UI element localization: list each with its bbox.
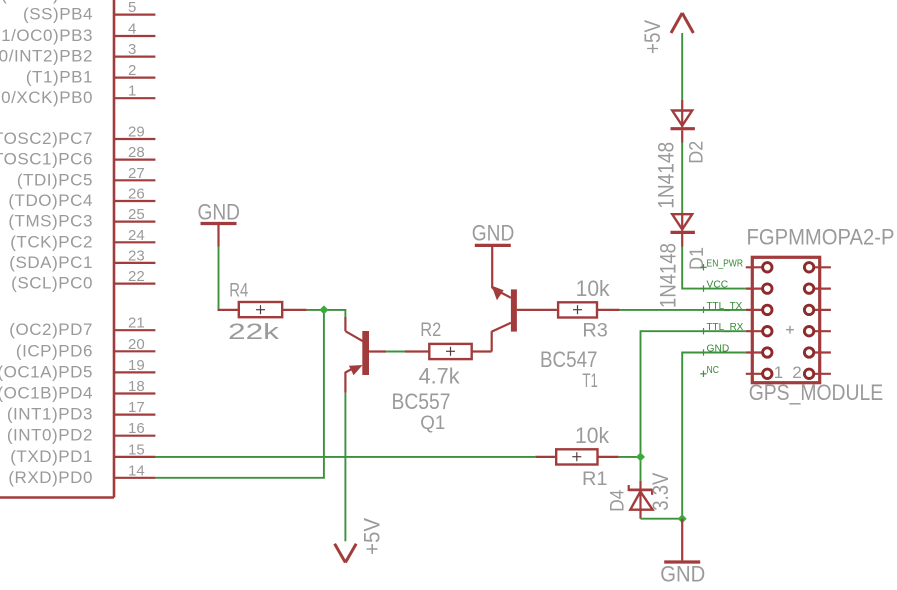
svg-text:17: 17: [128, 399, 145, 416]
pin 29 (TOSC2)PC7: [0, 124, 155, 149]
GPS pin EN_PWR (left pad row 1): [700, 258, 772, 272]
IC U1 body (ATmega microcontroller, partially off-canvas): [0, 0, 114, 498]
svg-text:T1: T1: [582, 371, 598, 392]
pin 1 (T0/XCK)PB0: [0, 83, 155, 108]
svg-text:GND: GND: [472, 220, 515, 245]
svg-text:BC557: BC557: [392, 389, 451, 414]
wire R4 to junction: [307, 309, 324, 311]
svg-text:25: 25: [128, 206, 145, 223]
svg-text:D2: D2: [687, 141, 708, 164]
svg-text:10k: 10k: [576, 276, 611, 301]
wire R3 to GPS TTL_TX: [620, 309, 746, 311]
svg-text:GND: GND: [707, 344, 730, 355]
svg-text:+5V: +5V: [360, 518, 385, 555]
svg-text:(TOSC2)PC7: (TOSC2)PC7: [0, 129, 93, 148]
junction node (R1 / D4 / TTL_RX): [636, 452, 645, 461]
transistor Q1 BC557 (PNP): [345, 317, 450, 434]
GPS pin TTL_RX (left pad row 4): [700, 322, 772, 336]
svg-text:15: 15: [128, 441, 145, 458]
pin 21 (OC2)PD7: [9, 315, 155, 340]
svg-text:(TMS)PC3: (TMS)PC3: [8, 212, 93, 231]
GPS pin GND (left pad row 5): [700, 344, 772, 358]
pin 22 (SCL)PC0: [11, 268, 155, 293]
svg-text:R1: R1: [582, 469, 608, 490]
diode D2 1N4148: [653, 100, 707, 209]
pin 3 (AIN0/INT2)PB2: [0, 41, 155, 66]
svg-text:14: 14: [128, 462, 145, 479]
svg-text:19: 19: [128, 357, 145, 374]
resistor R2 4.7k: [405, 320, 492, 389]
svg-text:(T0/XCK)PB0: (T0/XCK)PB0: [0, 88, 93, 107]
wire D1 to GPS VCC: [682, 247, 746, 289]
svg-text:1N4148: 1N4148: [653, 142, 678, 209]
pin 20 (ICP)PD6: [16, 336, 156, 361]
svg-text:22: 22: [128, 268, 145, 285]
GPS right pad row 2: [804, 284, 831, 293]
pin 14 (RXD)PD0: [8, 462, 155, 487]
wire D2 to D1: [681, 143, 683, 213]
wire junction down to RXD (pin 14): [155, 310, 324, 478]
svg-text:(RXD)PD0: (RXD)PD0: [8, 468, 93, 487]
svg-text:22k: 22k: [228, 319, 280, 344]
svg-text:28: 28: [128, 144, 145, 161]
svg-text:(INT0)PD2: (INT0)PD2: [7, 426, 93, 445]
svg-text:29: 29: [128, 124, 145, 141]
junction node (R4 / Q1 / PD0): [319, 305, 328, 314]
svg-text:(SDA)PC1: (SDA)PC1: [9, 253, 93, 272]
svg-text:3.3V: 3.3V: [648, 472, 673, 510]
pin 19 (OC1A)PD5: [0, 357, 155, 382]
svg-text:27: 27: [128, 165, 145, 182]
GPS right pad row 6: [804, 369, 831, 378]
svg-text:D4: D4: [607, 489, 628, 511]
ground GND (near T1): [472, 220, 515, 245]
wire GND to R4 (vertical): [218, 247, 220, 311]
svg-text:(TCK)PC2: (TCK)PC2: [10, 232, 93, 251]
GPS right pad row 4: [804, 327, 831, 336]
svg-text:(TXD)PD1: (TXD)PD1: [10, 447, 93, 466]
svg-text:TTL_TX: TTL_TX: [707, 301, 743, 312]
svg-text:26: 26: [128, 186, 145, 203]
transistor T1 BC547 (NPN): [492, 247, 598, 392]
svg-text:NC: NC: [707, 365, 720, 376]
svg-text:(SCL)PC0: (SCL)PC0: [11, 274, 93, 293]
GPS right pad row 1: [804, 263, 831, 272]
svg-text:(MISO)PB5: (MISO)PB5: [1, 0, 93, 4]
svg-text:1: 1: [128, 83, 136, 100]
+5V supply symbol (top): [640, 13, 694, 54]
resistor R4 22k: [218, 280, 307, 343]
svg-text:3: 3: [128, 41, 136, 58]
svg-text:FGPMMOPA2-P: FGPMMOPA2-P: [747, 224, 895, 249]
wire Q1 base to R2: [386, 351, 405, 353]
GPS pin NC (left pad row 6): [700, 365, 772, 379]
svg-text:(TDI)PC5: (TDI)PC5: [17, 170, 93, 189]
diode D1 1N4148: [656, 213, 708, 308]
pin 16 (INT0)PD2: [7, 420, 156, 445]
svg-text:24: 24: [128, 227, 145, 244]
wire D4 to GND junction: [641, 518, 683, 520]
svg-text:16: 16: [128, 420, 145, 437]
svg-text:(OC2)PD7: (OC2)PD7: [9, 320, 93, 339]
+5V supply symbol (bottom): [335, 518, 385, 563]
svg-text:(T1)PB1: (T1)PB1: [26, 68, 93, 87]
svg-text:TTL_RX: TTL_RX: [707, 322, 744, 333]
svg-text:(OC1A)PD5: (OC1A)PD5: [0, 362, 93, 381]
pin 5 (SS)PB4: [23, 0, 155, 24]
junction node (D4 / GPS GND / GND): [678, 514, 687, 523]
svg-text:(AIN1/OC0)PB3: (AIN1/OC0)PB3: [0, 26, 93, 45]
pin 23 (SDA)PC1: [9, 247, 155, 272]
svg-text:R4: R4: [229, 280, 248, 301]
pin 15 (TXD)PD1: [10, 441, 155, 466]
wire junction up to GPS TTL_RX: [641, 331, 746, 457]
pin 2 (T1)PB1: [26, 62, 156, 87]
pin 28 (TOSC1)PC6: [0, 144, 155, 169]
pin 18 (OC1B)PD4: [0, 378, 155, 403]
svg-text:5: 5: [128, 0, 136, 16]
pin 25 (TMS)PC3: [8, 206, 155, 231]
resistor R3 10k: [558, 276, 620, 342]
ground GND (bottom): [660, 519, 705, 587]
GPS pin TTL_TX (left pad row 3): [700, 301, 772, 315]
svg-text:(AIN0/INT2)PB2: (AIN0/INT2)PB2: [0, 47, 93, 66]
svg-text:1N4148: 1N4148: [656, 243, 681, 308]
pin 17 (INT1)PD3: [7, 399, 156, 424]
svg-text:BC547: BC547: [540, 347, 598, 372]
svg-text:(INT1)PD3: (INT1)PD3: [7, 405, 93, 424]
svg-text:GND: GND: [660, 561, 705, 586]
svg-text:10k: 10k: [575, 423, 610, 448]
pin 26 (TDO)PC4: [8, 186, 155, 211]
svg-text:EN_PWR: EN_PWR: [707, 258, 744, 269]
svg-text:21: 21: [128, 315, 145, 332]
GPS pin VCC (left pad row 2): [700, 280, 772, 294]
wire junction to Q1 collector corner: [324, 310, 346, 318]
zener diode D4 3.3V: [607, 472, 673, 518]
wire R1 to junction: [619, 456, 641, 458]
wire GPS GND down to junction: [682, 353, 746, 519]
pin 4 (AIN1/OC0)PB3: [0, 21, 155, 46]
svg-text:(SS)PB4: (SS)PB4: [23, 5, 93, 24]
svg-text:4: 4: [128, 21, 136, 38]
connector GPS_MODULE FGPMMOPA2-P: [747, 224, 895, 405]
svg-text:4.7k: 4.7k: [419, 364, 461, 389]
pin 6 (MISO)PB5 (cut off at top): [1, 0, 93, 4]
GPS right pad row 5: [804, 348, 831, 357]
svg-text:R2: R2: [420, 320, 441, 341]
wire junction down to D4: [640, 457, 642, 481]
svg-text:+5V: +5V: [640, 20, 665, 54]
svg-text:1: 1: [774, 363, 783, 382]
GPS right pad row 3: [804, 305, 831, 314]
svg-text:D1: D1: [687, 247, 708, 270]
svg-text:2: 2: [792, 363, 801, 382]
svg-text:20: 20: [128, 336, 145, 353]
pin 27 (TDI)PC5: [17, 165, 156, 190]
svg-text:VCC: VCC: [707, 280, 729, 291]
pin 24 (TCK)PC2: [10, 227, 155, 252]
svg-text:(TDO)PC4: (TDO)PC4: [8, 191, 93, 210]
svg-text:R3: R3: [582, 321, 608, 342]
ground GND (top, near R4): [198, 200, 241, 247]
wire PD1 (pin 15, TXD) to R1: [155, 456, 535, 458]
svg-text:18: 18: [128, 378, 145, 395]
svg-text:23: 23: [128, 247, 145, 264]
svg-text:Q1: Q1: [420, 413, 445, 434]
wire Q1 emitter to +5V (bottom): [344, 393, 346, 542]
svg-text:(TOSC1)PC6: (TOSC1)PC6: [0, 150, 93, 169]
wire +5V to D2: [681, 33, 683, 100]
svg-text:2: 2: [128, 62, 136, 79]
svg-text:GND: GND: [198, 200, 241, 225]
svg-text:(ICP)PD6: (ICP)PD6: [16, 341, 93, 360]
resistor R1 10k: [535, 423, 618, 490]
svg-text:(OC1B)PD4: (OC1B)PD4: [0, 384, 93, 403]
